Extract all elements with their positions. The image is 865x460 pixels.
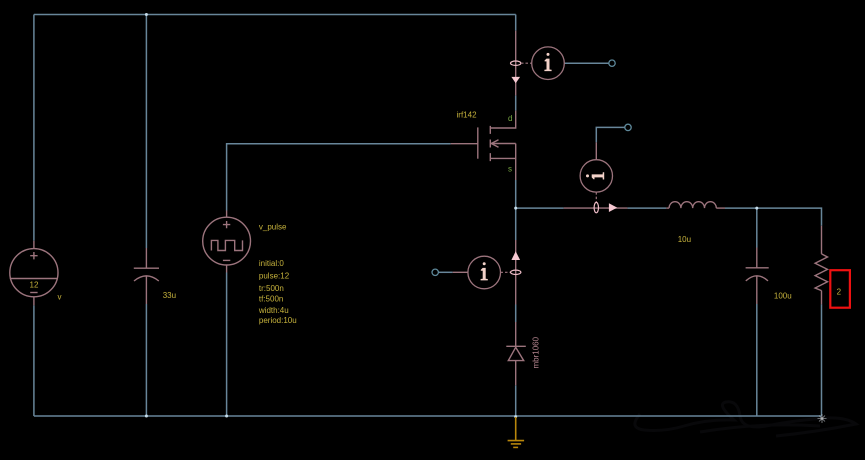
svg-text:period:10u: period:10u (259, 316, 297, 325)
svg-text:pulse:12: pulse:12 (259, 272, 290, 281)
junction ground bus diode (514, 415, 517, 418)
wire bottom ground bus (34, 415, 822, 417)
terminal of ammeter I3 (432, 269, 438, 275)
svg-text:100u: 100u (774, 291, 792, 300)
wire v_pulse to gate (227, 144, 451, 211)
wire C1 branch top (145, 15, 147, 249)
svg-text:tf:500n: tf:500n (259, 295, 283, 304)
terminal of ammeter I2 (625, 124, 631, 130)
svg-text:33u: 33u (163, 291, 176, 300)
junction ground bus v_pulse (225, 415, 228, 418)
wire output node to C2 (756, 208, 758, 247)
svg-text:2: 2 (837, 288, 842, 297)
wire V source bottom to ground bus (33, 305, 35, 416)
wire switch node down to ammeter I3 (515, 208, 517, 240)
watermark glint (818, 414, 827, 423)
svg-text:width:4u: width:4u (258, 306, 289, 315)
ammeter I1 (511, 31, 565, 96)
junction node top bus / C1 (145, 13, 148, 16)
highlight box around R1 value (830, 270, 850, 308)
wire v_pulse bottom (226, 273, 228, 417)
junction switch node (514, 207, 517, 210)
wire ammeter I2 to inductor (627, 207, 666, 209)
watermark signature (635, 402, 856, 436)
wire ammeter I3 to diode (515, 305, 517, 323)
wire top bus to ammeter I1 (515, 15, 517, 31)
svg-text:v: v (58, 293, 62, 302)
svg-text:v_pulse: v_pulse (259, 223, 287, 232)
wire switch node to ammeter I2 (516, 207, 564, 209)
inductor L1 10u (666, 202, 725, 208)
wire ammeter I1 output lead (565, 62, 609, 64)
svg-text:mbr1060: mbr1060 (532, 336, 541, 368)
wire C2 bottom (756, 304, 758, 416)
terminal of ammeter I1 (609, 60, 615, 66)
pulse source v_pulse (203, 211, 251, 273)
svg-text:irf142: irf142 (457, 111, 478, 120)
mosfet irf142 (451, 111, 516, 180)
resistor R1 (815, 226, 827, 305)
ammeter I3 (453, 240, 521, 305)
capacitor C1 33u (134, 248, 159, 304)
wire mosfet source to switch node (515, 180, 517, 208)
svg-text:s: s (508, 165, 512, 174)
wire ammeter I1 to mosfet drain (515, 95, 517, 110)
wire R1 bottom (821, 304, 823, 416)
wire C1 branch bottom (145, 304, 147, 416)
svg-text:tr:500n: tr:500n (259, 284, 284, 293)
junction ground bus C1 (145, 415, 148, 418)
ground symbol (508, 417, 524, 447)
svg-text:10u: 10u (678, 235, 691, 244)
ammeter I2 (564, 142, 628, 212)
wire ammeter I3 input lead (439, 271, 453, 273)
junction output node (755, 207, 758, 210)
svg-text:d: d (508, 114, 512, 123)
voltage source V1 (10, 241, 58, 306)
wire ammeter I2 output lead (596, 127, 624, 142)
wire inductor to output node and down right side (725, 208, 822, 226)
svg-text:12: 12 (30, 281, 39, 290)
svg-text:initial:0: initial:0 (259, 259, 284, 268)
wire diode to ground bus (515, 385, 517, 416)
capacitor C2 100u (746, 248, 769, 305)
wire left vertical to V source (33, 15, 35, 241)
wire top bus (34, 14, 516, 16)
diode mbr1060 (506, 322, 526, 385)
